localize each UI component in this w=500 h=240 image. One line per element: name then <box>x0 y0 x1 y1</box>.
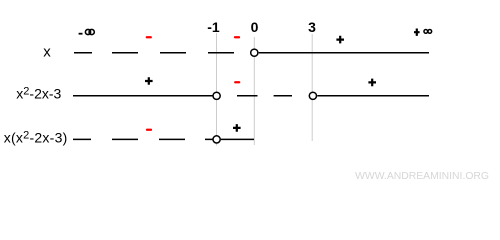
row 3: open circle at -1 <box>213 136 220 143</box>
row 2: open circle at -1 <box>213 92 220 99</box>
row 1 sign: minus (red) between -inf and -1 <box>146 36 152 38</box>
svg-text:3: 3 <box>308 19 316 35</box>
row 3: solid segment from -1 to 0 <box>221 138 254 140</box>
row 2: open circle at 3 <box>309 92 316 99</box>
vertical gridline at x=-1 <box>216 33 218 146</box>
row 1: open circle at 0 <box>251 49 258 56</box>
row 3 sign: plus between -1 and 0 <box>233 124 241 132</box>
row 1 sign: plus between 0 and +inf <box>336 36 344 44</box>
vertical gridline at x=3 <box>311 34 313 141</box>
svg-text:x: x <box>43 44 51 61</box>
row 3: dashed segment for x<-1 <box>73 138 213 140</box>
row 2 sign: minus (red) between -1 and 0 <box>234 81 240 83</box>
svg-text:x2-2x-3: x2-2x-3 <box>16 86 61 102</box>
row 2: solid segment for x>3 <box>317 95 429 97</box>
svg-text:-1: -1 <box>207 19 220 35</box>
label +infinity <box>414 29 432 36</box>
row 3 sign: minus (red) before -1 <box>146 129 152 131</box>
row 2: solid segment for x<-1 <box>73 95 213 97</box>
row 1: solid segment for x>0 <box>259 52 429 54</box>
label -infinity <box>79 29 95 34</box>
svg-text:0: 0 <box>251 19 259 35</box>
row 2 sign: plus before -1 <box>145 77 153 85</box>
svg-text:WWW.ANDREAMININI.ORG: WWW.ANDREAMININI.ORG <box>355 171 489 182</box>
row 2: dashed segment between -1 and 3 <box>237 95 292 97</box>
row 2 sign: plus after 3 <box>368 79 376 87</box>
row 1: dashed segment for x<0 <box>74 52 234 54</box>
svg-text:x(x2-2x-3): x(x2-2x-3) <box>4 130 68 146</box>
vertical gridline at x=0 <box>253 37 255 145</box>
row 1 sign: minus (red) between -1 and 0 <box>234 36 240 38</box>
